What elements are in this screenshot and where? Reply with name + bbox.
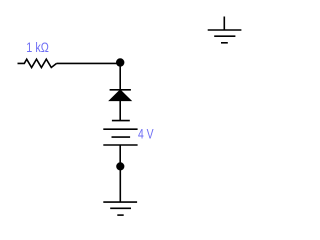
node A junction dot: [116, 58, 124, 66]
svg-text:1 kΩ: 1 kΩ: [26, 40, 49, 55]
resistor R1: [18, 59, 57, 67]
wire diode to battery: [119, 101, 121, 121]
diode D1 cathode bar: [110, 89, 131, 91]
wire node A to diode cathode: [119, 63, 121, 90]
wire resistor to node A: [57, 62, 121, 64]
battery V1: [103, 121, 137, 145]
wire battery to node B: [119, 145, 121, 166]
ground (bottom): [103, 202, 137, 215]
diode D1 anode triangle: [109, 90, 131, 101]
wire node B to ground: [119, 166, 121, 202]
svg-text:4 V: 4 V: [138, 127, 154, 142]
node B junction dot: [116, 162, 124, 170]
ground (top right): [208, 17, 242, 43]
